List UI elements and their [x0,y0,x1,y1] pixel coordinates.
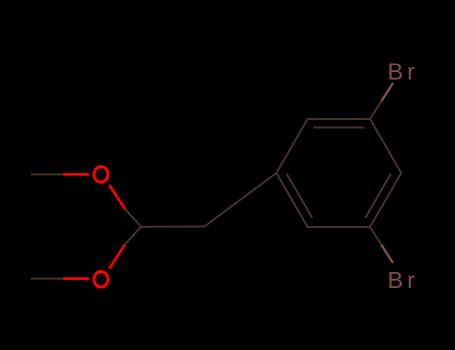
wire chain bond CH-CH2 horizontal [141,226,204,228]
wire methyl CH3 bottom dark tip [31,278,64,280]
wire Br-half of C-Br bond top (maroon) [382,83,394,101]
wire ring-half of C-Br bond bottom [370,227,382,245]
wire chain bond CH2-ring diagonal [204,173,276,227]
wire O1-CH bond red half [109,185,125,209]
wire methyl CH3 top dark tip [31,101,401,279]
red oxygen bonds [63,174,125,278]
wire ring-half of C-Br bond top [370,101,382,119]
svg-text:Br: Br [388,59,420,85]
svg-text:Br: Br [388,267,420,293]
benzene inner double bond left [287,174,313,218]
wire O1-CH3 bond red part [63,173,89,176]
benzene inner double bond top [313,127,364,129]
benzene ring outer hexagon [276,119,401,227]
benzene inner double bond right [365,174,391,218]
wire O2-CH3 bond red part [63,277,89,280]
wire C-half of CH-O2 bond [125,227,141,245]
atom O2 (bottom methoxy oxygen) [94,272,108,288]
wire O2-CH bond red half [109,244,125,268]
wire Br-half of C-Br bond bottom (maroon) [382,245,394,263]
wire C-half of O1-CH bond [125,209,141,227]
atom O1 (top methoxy oxygen) [94,167,108,183]
